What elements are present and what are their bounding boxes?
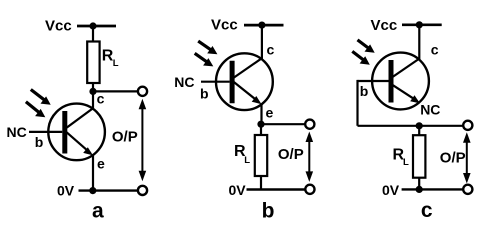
svg-text:L: L bbox=[113, 58, 119, 69]
svg-text:Vcc: Vcc bbox=[211, 17, 238, 34]
junction Vcc node (a) bbox=[89, 22, 96, 29]
terminal O/P bottom (a) bbox=[138, 186, 147, 195]
wire RL to 0V rail (c) bbox=[418, 178, 420, 190]
wire 0V rail (a) bbox=[79, 189, 139, 191]
output double arrow (a) bbox=[141, 107, 143, 174]
output double arrow (b) bbox=[308, 139, 310, 174]
wire emitter node to RL (b) bbox=[260, 124, 262, 135]
svg-text:b: b bbox=[200, 85, 209, 101]
junction Vcc node (b) bbox=[258, 22, 265, 29]
transistor base bar (b) bbox=[230, 61, 235, 103]
svg-text:c: c bbox=[431, 42, 439, 58]
wire emitter node to output terminal (b) bbox=[261, 123, 306, 125]
junction collector node c (a) bbox=[89, 88, 96, 95]
terminal O/P bottom (c) bbox=[463, 185, 472, 194]
light arrow 1 (b) bbox=[198, 41, 211, 50]
light arrow 1 (c) bbox=[358, 40, 369, 48]
wire base to output terminal (c) bbox=[358, 125, 464, 127]
wire node to RL (c) bbox=[418, 126, 420, 135]
wire base lead (a) bbox=[29, 131, 62, 133]
transistor Q1 phototransistor (a) bbox=[48, 104, 105, 161]
light arrow 1 (a) bbox=[31, 90, 44, 100]
junction Vcc node (c) bbox=[416, 21, 423, 28]
wire Vcc rail (b) bbox=[244, 24, 284, 27]
svg-text:e: e bbox=[97, 156, 105, 172]
wire collector node to output terminal (a) bbox=[93, 90, 138, 92]
light arrow 2 (a) bbox=[26, 102, 39, 112]
transistor base bar (c) bbox=[389, 60, 394, 103]
wire Vcc to RL (a) bbox=[92, 26, 94, 42]
wire RL to collector node (a) bbox=[92, 83, 94, 109]
junction emitter node e (b) bbox=[257, 121, 264, 128]
svg-text:NC: NC bbox=[7, 124, 27, 140]
wire emitter to 0V rail (a) bbox=[92, 155, 94, 190]
terminal O/P top (a) bbox=[138, 87, 147, 96]
svg-text:c: c bbox=[267, 42, 275, 58]
terminal O/P top (b) bbox=[305, 120, 314, 129]
svg-text:0V: 0V bbox=[229, 182, 247, 198]
wire RL to 0V rail (b) bbox=[260, 176, 262, 190]
transistor collector stroke (c) bbox=[393, 59, 420, 77]
wire emitter to output node (b) bbox=[260, 104, 262, 124]
light arrow 2 (b) bbox=[195, 53, 207, 62]
terminal O/P top (c) bbox=[463, 121, 472, 130]
svg-text:O/P: O/P bbox=[278, 146, 304, 163]
svg-text:NC: NC bbox=[174, 74, 194, 90]
svg-text:0V: 0V bbox=[382, 182, 400, 198]
resistor RL (a) bbox=[87, 42, 99, 84]
wire 0V rail (b) bbox=[247, 188, 306, 190]
light arrow 2 (c) bbox=[352, 51, 363, 60]
svg-text:O/P: O/P bbox=[112, 129, 138, 146]
wire Vcc rail (c) bbox=[402, 23, 442, 26]
wire Vcc to collector (b) bbox=[261, 25, 263, 59]
resistor RL (b) bbox=[255, 135, 267, 176]
svg-text:Vcc: Vcc bbox=[45, 17, 72, 34]
wire base lead left (c) bbox=[358, 80, 389, 82]
transistor collector stroke (a) bbox=[67, 108, 94, 128]
transistor emitter arrowhead (a) bbox=[83, 147, 93, 155]
transistor base bar (a) bbox=[62, 111, 67, 154]
svg-text:e: e bbox=[266, 105, 274, 121]
terminal O/P bottom (b) bbox=[305, 185, 314, 194]
svg-text:c: c bbox=[97, 90, 105, 106]
svg-text:b: b bbox=[35, 134, 44, 150]
transistor Q3 phototransistor (c) bbox=[372, 53, 429, 110]
transistor Q2 phototransistor (b) bbox=[216, 53, 273, 110]
wire Vcc to collector (c) bbox=[418, 25, 420, 60]
svg-text:L: L bbox=[403, 157, 409, 168]
transistor emitter arrowhead (b) bbox=[252, 96, 262, 104]
svg-text:O/P: O/P bbox=[440, 149, 466, 166]
svg-text:Vcc: Vcc bbox=[371, 17, 398, 34]
junction emitter-0V node (a) bbox=[89, 187, 96, 194]
resistor RL (c) bbox=[413, 135, 425, 178]
svg-text:0V: 0V bbox=[57, 182, 75, 198]
svg-text:b: b bbox=[262, 199, 275, 222]
junction base-RL node (c) bbox=[416, 122, 423, 129]
transistor emitter stroke (a) bbox=[67, 132, 91, 153]
wire base down (c) bbox=[356, 80, 358, 126]
svg-text:a: a bbox=[92, 200, 104, 222]
output double arrow (c) bbox=[466, 140, 468, 176]
svg-text:L: L bbox=[244, 155, 250, 166]
junction RL-0V node (c) bbox=[416, 186, 423, 193]
transistor emitter stroke (c) bbox=[393, 85, 418, 101]
svg-text:NC: NC bbox=[420, 102, 440, 118]
wire base lead (b) bbox=[201, 81, 230, 83]
wire 0V rail (c) bbox=[402, 188, 464, 190]
svg-text:b: b bbox=[360, 83, 369, 99]
transistor emitter stroke (b) bbox=[234, 82, 259, 102]
transistor emitter arrowhead (c) bbox=[410, 95, 420, 103]
wire Vcc rail (a) bbox=[77, 25, 116, 28]
svg-text:c: c bbox=[421, 199, 433, 222]
transistor collector stroke (b) bbox=[234, 58, 262, 77]
